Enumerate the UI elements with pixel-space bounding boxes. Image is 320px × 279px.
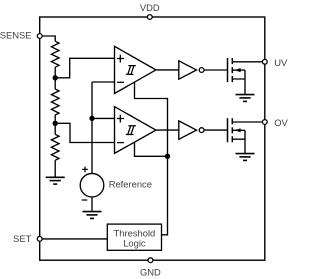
- pin GND: [148, 258, 153, 263]
- U1 - input mark: [117, 81, 124, 83]
- pin SET: [37, 237, 42, 242]
- pin VDD: [147, 15, 152, 20]
- wire reference to ground: [91, 197, 93, 212]
- U1 + input mark: [117, 55, 124, 63]
- reference - polarity mark: [82, 199, 88, 201]
- pin SENSE: [37, 34, 42, 39]
- svg-text:GND: GND: [140, 267, 161, 278]
- Q2 body lead with arrow: [232, 129, 245, 131]
- buffer/inverter U3: [179, 61, 197, 79]
- wire U3 to Q1 gate: [204, 69, 228, 71]
- transistor Q1 (UV output MOSFET): [228, 58, 233, 82]
- wire R1 bottom to node A: [54, 67, 56, 78]
- hysteresis feedback wire from U2: [135, 142, 168, 156]
- pin UV: [262, 59, 267, 64]
- ground (Q1 source): [236, 95, 255, 102]
- Threshold Logic block: [107, 224, 161, 250]
- wire U1 output to buffer: [156, 69, 179, 71]
- comparator U2 (OV comparator): [115, 107, 156, 154]
- Q1 source lead: [232, 70, 245, 95]
- U1 hysteresis symbol: [126, 66, 136, 75]
- svg-text:OV: OV: [274, 117, 288, 128]
- buffer/inverter U4: [179, 121, 197, 139]
- wire U2 output to buffer: [156, 129, 179, 131]
- wire node C to U2 + input: [92, 117, 115, 119]
- svg-text:Logic: Logic: [123, 238, 146, 249]
- wire node B to comparator U2 - input: [55, 123, 114, 142]
- pin OV: [262, 120, 267, 125]
- svg-text:SET: SET: [13, 233, 32, 244]
- resistor R1: [51, 41, 59, 67]
- U2 hysteresis symbol: [126, 126, 136, 135]
- wire node A to comparator U1 + input: [55, 58, 114, 78]
- U2 + input mark: [117, 115, 124, 123]
- svg-text:VDD: VDD: [140, 2, 160, 13]
- hysteresis feedback wire from U1 to Threshold Logic: [135, 82, 168, 235]
- node C junction dot (reference to U2 +): [90, 116, 94, 120]
- Q1 drain wire to UV pin: [232, 61, 262, 63]
- IC boundary box: [40, 17, 265, 260]
- svg-text:UV: UV: [274, 57, 288, 68]
- comparator U1 (UV comparator): [115, 46, 156, 93]
- Q2 source lead: [232, 130, 245, 153]
- reference vertical wire to U1 - input: [92, 82, 115, 173]
- node B junction dot (R2/R3 tap): [53, 121, 57, 125]
- resistor R2: [51, 78, 59, 124]
- reference + polarity mark: [82, 167, 88, 173]
- Q2 drain wire to OV pin: [232, 121, 262, 123]
- ground (Q2 source): [236, 154, 255, 161]
- ground (below R3): [46, 177, 65, 184]
- wire SET pin to Threshold Logic: [42, 238, 107, 240]
- svg-text:Reference: Reference: [109, 179, 152, 190]
- wire SENSE pin to resistor chain: [42, 36, 55, 41]
- transistor Q2 (OV output MOSFET): [228, 118, 233, 142]
- svg-text:SENSE: SENSE: [0, 29, 32, 40]
- node A junction dot (R1/R2 tap): [53, 76, 57, 80]
- wire U4 to Q2 gate: [204, 129, 228, 131]
- node D junction dot (feedback join): [166, 154, 170, 158]
- voltage reference source: [80, 173, 104, 197]
- Q1 body lead with arrow: [232, 69, 245, 71]
- U4 output bubble: [199, 128, 204, 133]
- U2 - input mark: [117, 142, 124, 144]
- resistor R3: [51, 123, 59, 177]
- ground (below reference): [83, 212, 102, 219]
- U3 output bubble: [199, 68, 204, 73]
